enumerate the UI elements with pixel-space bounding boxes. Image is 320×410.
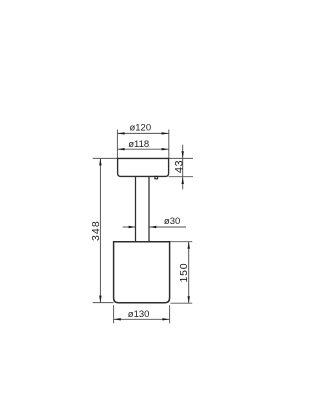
- dim line dia30 left: [123, 226, 136, 228]
- stem left line: [135, 176, 137, 241]
- ext line dia130 left: [113, 305, 115, 323]
- cylinder shade body: [114, 242, 170, 303]
- ext line cylinder bottom right (150 dim): [171, 302, 193, 304]
- arrow dia118 right: [162, 148, 169, 150]
- ext line top-right (canopy top to 43 dim): [169, 157, 193, 159]
- canopy body: [118, 158, 169, 176]
- arrow dia118 left: [117, 148, 124, 150]
- svg-text:150: 150: [178, 263, 190, 283]
- arrow dia120 left: [117, 132, 124, 134]
- arrow 348 bottom (points down): [99, 296, 101, 303]
- ext line top-left (canopy top to 348 dim): [93, 157, 118, 159]
- dim line 43: [182, 145, 184, 190]
- dim line dia118: [117, 148, 168, 150]
- arrow 43 bottom (points up): [182, 177, 184, 184]
- svg-text:ø30: ø30: [164, 216, 180, 227]
- dim line dia120: [117, 132, 168, 134]
- arrow 150 top (points up): [188, 242, 190, 249]
- dim line 348: [99, 158, 101, 302]
- ext line bottom-left (348 dim): [93, 302, 114, 304]
- svg-text:ø120: ø120: [129, 122, 151, 133]
- arrow dia30 left (points right): [129, 226, 136, 228]
- ext line canopy bottom right (43 dim): [169, 176, 193, 178]
- arrow 43 top (points down): [182, 151, 184, 158]
- ext line dia120/118 left: [116, 130, 118, 159]
- arrow 150 bottom (points down): [188, 296, 190, 303]
- svg-text:ø118: ø118: [128, 139, 149, 150]
- svg-text:348: 348: [90, 220, 102, 241]
- stem right line: [148, 176, 150, 241]
- arrow dia130 right: [162, 318, 169, 320]
- dim line 150: [188, 242, 190, 304]
- arrow dia30 right (points left): [150, 226, 157, 228]
- svg-text:43: 43: [174, 160, 186, 173]
- ext line dia130 right: [169, 305, 171, 323]
- svg-text:ø130: ø130: [128, 309, 150, 320]
- arrow 348 top (points up): [99, 158, 101, 165]
- ext line dia120/118 right: [168, 130, 170, 159]
- dim line dia130: [114, 318, 170, 320]
- dim line dia30 right: [150, 226, 187, 228]
- arrow dia130 left: [114, 318, 121, 320]
- ext line cylinder top right (150 dim): [170, 241, 193, 243]
- small switch detail under canopy: [155, 176, 158, 178]
- arrow dia120 right: [162, 132, 169, 134]
